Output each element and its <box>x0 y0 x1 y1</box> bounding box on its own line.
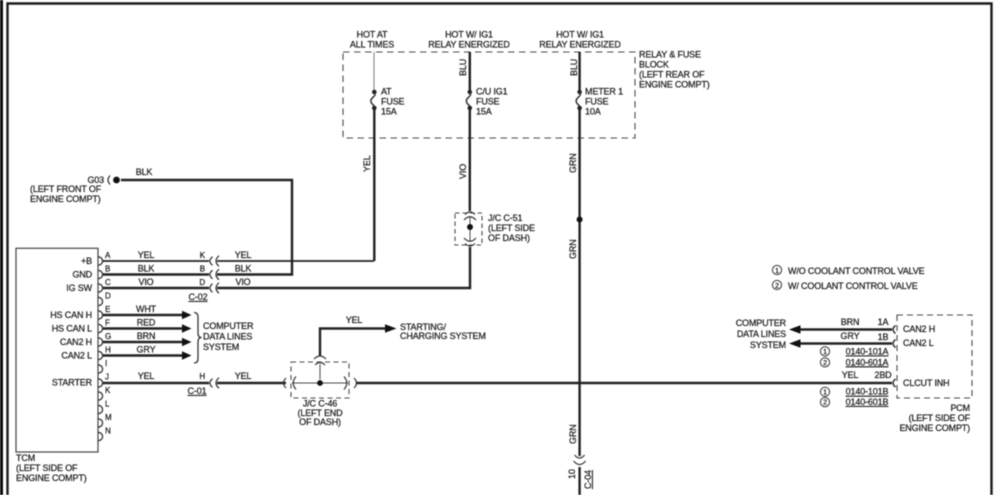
svg-text:GRY: GRY <box>841 331 860 341</box>
svg-text:C-04: C-04 <box>583 470 593 489</box>
svg-text:BLOCK: BLOCK <box>639 60 669 70</box>
svg-text:1B: 1B <box>878 332 889 342</box>
svg-text:HOT W/ IG1: HOT W/ IG1 <box>556 30 604 40</box>
svg-text:DATA LINES: DATA LINES <box>737 329 786 339</box>
svg-text:C-02: C-02 <box>189 292 208 302</box>
svg-text:VIO: VIO <box>458 164 468 179</box>
svg-text:K: K <box>200 251 206 260</box>
svg-text:TCM: TCM <box>16 453 35 463</box>
svg-text:ALL TIMES: ALL TIMES <box>350 39 394 49</box>
svg-text:A: A <box>105 251 111 260</box>
svg-text:J/C C-51: J/C C-51 <box>488 213 522 223</box>
svg-text:2: 2 <box>775 283 779 290</box>
svg-text:YEL: YEL <box>842 370 859 380</box>
svg-text:C/U IG1: C/U IG1 <box>476 87 508 97</box>
svg-text:10: 10 <box>567 469 577 479</box>
svg-text:ENGINE COMPT): ENGINE COMPT) <box>16 473 87 483</box>
svg-text:GRN: GRN <box>568 424 578 444</box>
svg-text:BLK: BLK <box>235 264 252 274</box>
svg-text:SYSTEM: SYSTEM <box>203 342 239 352</box>
svg-text:OF DASH): OF DASH) <box>299 417 341 427</box>
svg-text:CAN2 H: CAN2 H <box>903 324 935 334</box>
svg-text:(LEFT SIDE OF: (LEFT SIDE OF <box>16 463 78 473</box>
svg-text:RELAY ENERGIZED: RELAY ENERGIZED <box>539 39 621 49</box>
svg-text:CAN2 L: CAN2 L <box>61 351 92 361</box>
svg-text:J: J <box>105 373 109 382</box>
svg-text:SYSTEM: SYSTEM <box>750 340 786 350</box>
svg-text:OF DASH): OF DASH) <box>488 233 530 243</box>
svg-text:(LEFT SIDE: (LEFT SIDE <box>488 223 535 233</box>
svg-text:VIO: VIO <box>235 277 250 287</box>
svg-text:ENGINE COMPT): ENGINE COMPT) <box>30 194 101 204</box>
svg-text:N: N <box>105 427 111 436</box>
svg-text:F: F <box>105 319 110 328</box>
svg-text:AT: AT <box>381 87 392 97</box>
svg-text:YEL: YEL <box>138 371 155 381</box>
svg-text:10A: 10A <box>585 107 601 117</box>
svg-text:PCM: PCM <box>950 403 970 413</box>
svg-text:D: D <box>105 292 111 301</box>
svg-text:ENGINE COMPT): ENGINE COMPT) <box>639 79 710 89</box>
svg-text:H: H <box>199 372 205 381</box>
svg-text:YEL: YEL <box>362 155 372 172</box>
svg-text:YEL: YEL <box>138 250 155 260</box>
svg-text:W/ COOLANT CONTROL VALVE: W/ COOLANT CONTROL VALVE <box>788 281 918 291</box>
svg-text:2: 2 <box>823 360 827 367</box>
svg-text:HS CAN H: HS CAN H <box>50 310 92 320</box>
svg-text:YEL: YEL <box>235 371 252 381</box>
svg-text:(LEFT SIDE OF: (LEFT SIDE OF <box>909 413 971 423</box>
svg-text:HOT AT: HOT AT <box>357 30 388 40</box>
svg-text:K: K <box>105 386 111 395</box>
svg-text:0140-101B: 0140-101B <box>846 387 889 397</box>
svg-text:COMPUTER: COMPUTER <box>203 321 254 331</box>
svg-text:FUSE: FUSE <box>476 97 500 107</box>
svg-text:DATA LINES: DATA LINES <box>203 332 252 342</box>
svg-text:CLCUT INH: CLCUT INH <box>903 378 950 388</box>
svg-text:GND: GND <box>72 270 92 280</box>
svg-text:I: I <box>105 359 107 368</box>
svg-text:L: L <box>105 400 110 409</box>
svg-text:IG SW: IG SW <box>66 283 92 293</box>
svg-text:E: E <box>105 305 110 314</box>
svg-text:BRN: BRN <box>137 331 156 341</box>
svg-text:B: B <box>105 265 110 274</box>
svg-text:G: G <box>105 332 111 341</box>
svg-text:M: M <box>105 413 112 422</box>
svg-text:FUSE: FUSE <box>381 97 405 107</box>
svg-text:BLU: BLU <box>458 59 468 76</box>
svg-text:STARTER: STARTER <box>52 378 93 388</box>
svg-text:YEL: YEL <box>235 250 252 260</box>
svg-text:(LEFT REAR OF: (LEFT REAR OF <box>639 69 705 79</box>
svg-text:HS CAN L: HS CAN L <box>52 324 92 334</box>
svg-text:H: H <box>105 346 111 355</box>
svg-text:2BD: 2BD <box>874 370 892 380</box>
svg-text:15A: 15A <box>476 107 492 117</box>
svg-text:CHARGING SYSTEM: CHARGING SYSTEM <box>400 331 486 341</box>
svg-text:2: 2 <box>823 400 827 407</box>
svg-text:1A: 1A <box>878 317 889 327</box>
svg-text:15A: 15A <box>381 107 397 117</box>
svg-text:ENGINE COMPT): ENGINE COMPT) <box>899 423 970 433</box>
svg-text:1: 1 <box>823 389 827 396</box>
svg-text:YEL: YEL <box>346 315 363 325</box>
svg-text:HOT W/ IG1: HOT W/ IG1 <box>445 30 493 40</box>
svg-text:METER 1: METER 1 <box>585 87 623 97</box>
svg-text:0140-601A: 0140-601A <box>846 357 889 367</box>
svg-text:COMPUTER: COMPUTER <box>736 318 787 328</box>
svg-text:BRN: BRN <box>841 317 860 327</box>
svg-text:C-01: C-01 <box>188 386 207 396</box>
svg-text:W/O COOLANT CONTROL VALVE: W/O COOLANT CONTROL VALVE <box>788 266 925 276</box>
svg-text:1: 1 <box>775 268 779 275</box>
svg-text:WHT: WHT <box>136 304 157 314</box>
svg-text:VIO: VIO <box>138 277 153 287</box>
svg-text:+B: +B <box>81 256 92 266</box>
svg-text:0140-601B: 0140-601B <box>846 397 889 407</box>
svg-text:RED: RED <box>137 318 156 328</box>
svg-text:C: C <box>105 278 111 287</box>
svg-text:FUSE: FUSE <box>585 97 609 107</box>
svg-text:0140-101A: 0140-101A <box>846 347 889 357</box>
svg-text:BLK: BLK <box>138 264 155 274</box>
svg-text:GRN: GRN <box>568 239 578 259</box>
svg-text:GRY: GRY <box>137 345 156 355</box>
svg-text:RELAY & FUSE: RELAY & FUSE <box>639 50 701 60</box>
svg-text:CAN2 H: CAN2 H <box>60 337 92 347</box>
svg-text:RELAY ENERGIZED: RELAY ENERGIZED <box>428 39 510 49</box>
svg-text:CAN2 L: CAN2 L <box>903 338 934 348</box>
svg-text:(LEFT FRONT OF: (LEFT FRONT OF <box>30 184 102 194</box>
svg-text:1: 1 <box>823 349 827 356</box>
svg-text:B: B <box>200 265 205 274</box>
svg-text:D: D <box>199 278 205 287</box>
svg-text:BLK: BLK <box>136 167 153 177</box>
svg-text:BLU: BLU <box>569 59 579 76</box>
svg-text:GRN: GRN <box>568 153 578 173</box>
